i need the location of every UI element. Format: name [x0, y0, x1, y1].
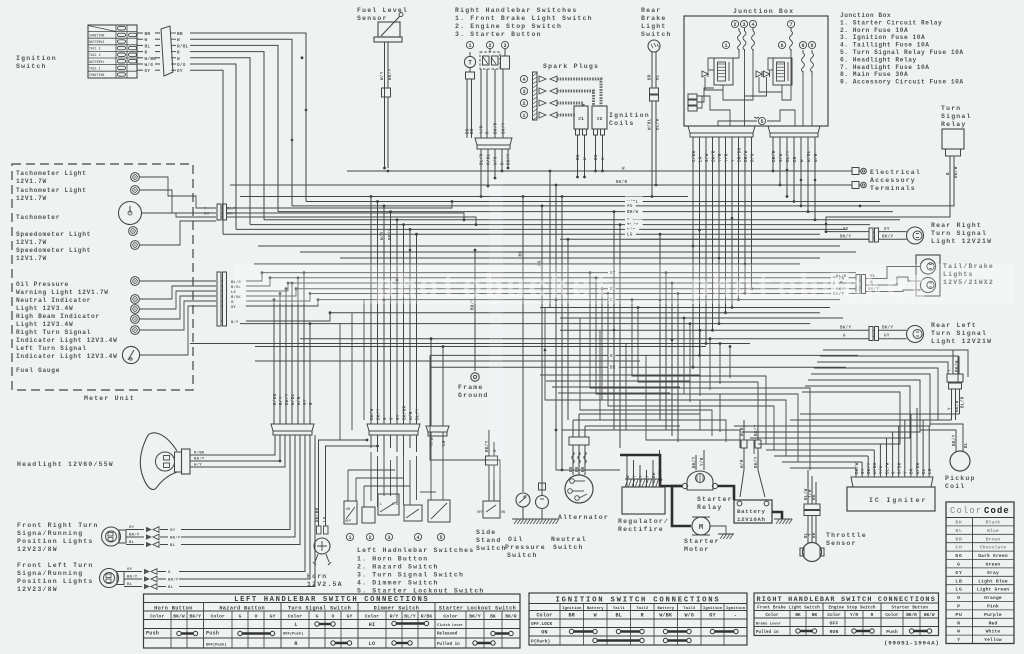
svg-text:1. Starter Circuit Relay: 1. Starter Circuit Relay	[840, 19, 942, 26]
svg-text:12V1.7W: 12V1.7W	[16, 195, 47, 202]
svg-text:Rear Left: Rear Left	[931, 322, 977, 329]
svg-text:Push: Push	[886, 629, 898, 635]
svg-text:Speedometer Light: Speedometer Light	[16, 231, 91, 238]
ignition coil wires	[576, 129, 607, 178]
svg-text:BR/W: BR/W	[627, 210, 638, 215]
svg-text:Switch: Switch	[641, 31, 672, 38]
front brake light switch	[464, 41, 475, 79]
svg-text:M: M	[699, 524, 703, 532]
svg-text:BK: BK	[467, 128, 471, 134]
tail brake bulb lower	[920, 277, 935, 292]
svg-text:LO: LO	[369, 641, 376, 647]
svg-text:RUN: RUN	[830, 629, 839, 635]
meter unit text labels	[16, 170, 118, 374]
meter connector lower	[217, 272, 227, 326]
svg-text:Push: Push	[206, 631, 219, 637]
svg-text:Oil: Oil	[508, 536, 523, 543]
rear left turn signal label	[931, 322, 992, 345]
svg-text:Position Lights: Position Lights	[17, 538, 94, 545]
svg-text:Tachometer Light: Tachometer Light	[16, 187, 87, 194]
spark plugs label	[543, 63, 599, 70]
svg-text:Switch: Switch	[476, 545, 507, 552]
svg-text:6. Headlight Relay: 6. Headlight Relay	[840, 56, 917, 63]
svg-text:Starter Lockout Switch: Starter Lockout Switch	[439, 606, 516, 612]
frame ground symbol	[471, 373, 479, 381]
svg-text:W: W	[627, 475, 631, 478]
svg-text:Front Right Turn: Front Right Turn	[17, 522, 99, 529]
svg-text:Rear Right: Rear Right	[931, 222, 982, 229]
svg-text:BL/W: BL/W	[885, 462, 890, 474]
svg-text:3: 3	[522, 89, 525, 95]
svg-text:BK/Y: BK/Y	[882, 326, 893, 331]
svg-text:Relay: Relay	[941, 121, 967, 128]
svg-text:BL: BL	[168, 586, 174, 590]
svg-text:BR: BR	[145, 32, 151, 37]
rear right turn signal bulb	[907, 227, 924, 244]
svg-text:BK/Y: BK/Y	[840, 235, 851, 240]
svg-text:OFF: OFF	[345, 520, 351, 524]
svg-text:1. Horn Button: 1. Horn Button	[357, 556, 428, 563]
svg-text:7: 7	[789, 22, 792, 28]
svg-text:Light 12V21W: Light 12V21W	[931, 338, 992, 345]
svg-text:#2: #2	[597, 116, 603, 122]
regulator rectifier label	[618, 518, 669, 533]
tail brake connector	[856, 275, 866, 294]
ignition coil cap connector	[947, 350, 966, 420]
starter relay symbol	[682, 471, 717, 490]
svg-text:LB: LB	[955, 578, 962, 584]
svg-text:L: L	[380, 503, 382, 507]
left handlebar connector A	[367, 424, 420, 435]
svg-text:Indicator Light 12V3.4W: Indicator Light 12V3.4W	[16, 337, 118, 344]
svg-text:BL: BL	[616, 613, 622, 619]
tail brake lights label	[943, 263, 994, 286]
svg-text:Horn Button: Horn Button	[154, 606, 193, 612]
svg-text:BL/Y: BL/Y	[415, 408, 420, 420]
svg-text:LG: LG	[929, 468, 933, 474]
svg-text:BK: BK	[911, 468, 915, 474]
svg-text:Brake Lever: Brake Lever	[756, 622, 781, 627]
svg-text:LG: LG	[627, 234, 633, 238]
svg-text:W/BK: W/BK	[659, 613, 672, 619]
svg-text:Turn Signal Switch: Turn Signal Switch	[288, 606, 351, 612]
headlight harness risers	[273, 271, 314, 424]
ignition switch connections table	[529, 593, 747, 645]
svg-text:GY: GY	[231, 306, 236, 310]
rear brake light switch wires	[648, 52, 661, 198]
svg-text:R: R	[177, 51, 180, 56]
svg-text:BK: BK	[653, 472, 657, 478]
rear left turn signal wires	[840, 326, 907, 339]
svg-text:5: 5	[760, 119, 763, 125]
svg-text:Battery: Battery	[587, 606, 604, 611]
throttle sensor wires	[804, 470, 817, 543]
svg-text:Gray: Gray	[987, 570, 999, 576]
svg-text:Y: Y	[957, 637, 961, 643]
svg-text:Brown: Brown	[986, 536, 1001, 542]
junction box title	[733, 8, 794, 15]
svg-text:W: W	[622, 168, 625, 172]
svg-text:Pulled in: Pulled in	[437, 642, 460, 647]
meter connector wire labels	[231, 280, 241, 325]
svg-text:Ignition: Ignition	[562, 606, 582, 611]
svg-text:Horn: Horn	[307, 573, 327, 580]
svg-text:Y/R: Y/R	[850, 613, 858, 618]
svg-text:BK/W: BK/W	[955, 400, 960, 412]
electrical accessory terminal 2	[852, 182, 866, 189]
front right turn signal bulb	[102, 527, 127, 546]
svg-text:3: 3	[387, 535, 390, 541]
svg-text:Light Blue: Light Blue	[978, 578, 1008, 584]
starter circuit relay	[702, 58, 733, 85]
svg-text:Rear: Rear	[641, 7, 661, 14]
battery label	[737, 508, 766, 523]
svg-text:BK/Y: BK/Y	[127, 575, 138, 580]
auxiliary horizontal mesh	[540, 375, 700, 393]
svg-text:R: R	[294, 641, 297, 647]
svg-text:4: 4	[751, 22, 754, 28]
svg-text:Front Brake Light Switch: Front Brake Light Switch	[757, 606, 820, 611]
svg-text:3. Starter Button: 3. Starter Button	[455, 31, 542, 38]
svg-text:Switch: Switch	[16, 63, 47, 70]
ignition switch wire stubs	[137, 32, 160, 74]
svg-text:BL/R: BL/R	[480, 153, 485, 165]
meter unit label	[84, 395, 135, 402]
svg-text:B/Y: B/Y	[231, 320, 239, 325]
svg-text:G/W: G/W	[779, 153, 784, 162]
svg-text:Alternator: Alternator	[558, 514, 609, 521]
svg-text:BL: BL	[657, 74, 661, 80]
svg-text:LG: LG	[699, 156, 703, 162]
svg-text:BK/W: BK/W	[173, 614, 185, 620]
svg-text:BL: BL	[965, 442, 969, 448]
rear harness loop wires	[802, 350, 968, 444]
tail brake wires	[836, 267, 921, 293]
engine stop switch	[480, 41, 500, 69]
svg-text:BR: BR	[177, 32, 183, 37]
color code table	[946, 502, 1014, 644]
svg-text:12V2.5A: 12V2.5A	[307, 581, 343, 588]
svg-text:Tail2: Tail2	[636, 606, 649, 611]
svg-text:GY: GY	[862, 468, 866, 474]
svg-text:Y: Y	[640, 475, 644, 478]
svg-text:IGNITION: IGNITION	[89, 33, 104, 37]
svg-text:Indicator Light 12V3.4W: Indicator Light 12V3.4W	[16, 353, 118, 360]
neutral switch symbol	[536, 483, 549, 519]
battery box	[734, 500, 772, 523]
svg-text:Y: Y	[949, 369, 953, 372]
svg-text:Blue: Blue	[987, 528, 999, 534]
svg-text:2. Horn Fuse 10A: 2. Horn Fuse 10A	[840, 27, 908, 34]
svg-text:Spark Plugs: Spark Plugs	[543, 63, 599, 70]
svg-text:BK/Y: BK/Y	[469, 614, 481, 620]
svg-text:IGNITION: IGNITION	[89, 73, 104, 77]
svg-text:BATTERY2: BATTERY2	[89, 40, 104, 44]
svg-text:BK: BK	[595, 154, 599, 160]
left handlebar switch numbers	[346, 533, 444, 540]
svg-text:Green: Green	[986, 562, 1001, 568]
svg-text:R/Y: R/Y	[390, 614, 399, 620]
svg-text:Neutral: Neutral	[551, 536, 587, 543]
svg-text:Ignition: Ignition	[609, 112, 650, 119]
svg-text:BK/Y: BK/Y	[190, 614, 202, 620]
svg-text:BK/Y: BK/Y	[692, 456, 697, 468]
svg-text:BK/R: BK/R	[711, 150, 716, 162]
svg-text:GY: GY	[884, 335, 890, 339]
svg-text:BK/BR: BK/BR	[315, 507, 320, 522]
meter unit gauges and bulbs	[119, 173, 142, 364]
svg-text:BK/BR: BK/BR	[402, 405, 407, 420]
svg-text:BL/Y: BL/Y	[786, 150, 791, 162]
svg-text:BK: BK	[813, 532, 817, 538]
oil pressure switch label	[505, 536, 546, 559]
svg-text:BK: BK	[204, 213, 209, 217]
headlight bulb	[156, 449, 191, 474]
middle vertical harness	[471, 170, 680, 494]
svg-text:BK/Y: BK/Y	[285, 393, 290, 405]
rear right turn signal label	[931, 222, 992, 245]
svg-text:Color: Color	[827, 613, 841, 618]
svg-text:Relay: Relay	[697, 504, 723, 511]
svg-text:Coil: Coil	[945, 483, 965, 490]
svg-text:Switch: Switch	[553, 544, 584, 551]
svg-text:Left Turn Signal: Left Turn Signal	[16, 345, 87, 352]
svg-text:8: 8	[801, 43, 804, 49]
fuel level sensor label	[357, 7, 408, 22]
svg-text:W: W	[584, 157, 588, 160]
svg-text:Y/R: Y/R	[718, 153, 723, 162]
svg-text:Stand: Stand	[476, 537, 502, 544]
svg-text:1: 1	[468, 43, 471, 49]
junction box numbers	[722, 20, 815, 48]
regulator rectifier wires	[627, 450, 664, 487]
svg-text:Meter Unit: Meter Unit	[84, 395, 135, 402]
svg-text:GY: GY	[397, 414, 401, 420]
left handlebar switches legend	[357, 547, 485, 595]
svg-text:Orange: Orange	[984, 595, 1002, 601]
starter motor cable	[672, 486, 691, 526]
svg-text:Black: Black	[986, 520, 1001, 526]
svg-text:3. Ignition Fuse 10A: 3. Ignition Fuse 10A	[840, 34, 925, 41]
svg-text:BK/Y: BK/Y	[170, 536, 181, 541]
headlight shell	[140, 433, 177, 490]
svg-text:BK/Y: BK/Y	[507, 153, 512, 165]
svg-text:R: R	[957, 620, 961, 626]
svg-text:Motor: Motor	[684, 546, 710, 553]
svg-text:LG: LG	[955, 587, 962, 593]
junction box outline	[684, 16, 828, 126]
svg-text:R: R	[487, 131, 491, 134]
starter relay label	[697, 496, 733, 511]
svg-text:Battery: Battery	[657, 606, 674, 611]
svg-text:Terminals: Terminals	[870, 185, 916, 192]
svg-text:LEFT HANDLEBAR SWITCH CONNECTI: LEFT HANDLEBAR SWITCH CONNECTIONS	[234, 596, 429, 604]
side stand switch symbol	[477, 501, 505, 518]
throttle sensor symbol	[800, 543, 824, 562]
svg-text:OFF: OFF	[477, 511, 483, 515]
svg-text:#1: #1	[578, 116, 584, 122]
svg-text:OFF.LOCK: OFF.LOCK	[531, 622, 552, 627]
svg-text:O: O	[255, 614, 258, 620]
headlight connector	[271, 424, 314, 435]
svg-text:W/Y: W/Y	[380, 71, 385, 80]
svg-text:BK: BK	[955, 520, 962, 526]
svg-text:BK/Y: BK/Y	[388, 68, 393, 80]
junction box left harness	[692, 137, 756, 369]
svg-text:W: W	[594, 613, 597, 619]
svg-text:BK/W: BK/W	[370, 408, 375, 420]
svg-text:Turn: Turn	[941, 105, 961, 112]
svg-text:W: W	[801, 159, 805, 162]
svg-text:GY: GY	[170, 529, 176, 533]
svg-text:BR: BR	[569, 613, 575, 619]
throttle sensor connector	[804, 504, 820, 516]
svg-text:PU: PU	[955, 612, 962, 618]
svg-text:BK: BK	[490, 614, 496, 620]
svg-text:IGNITION SWITCH CONNECTIONS: IGNITION SWITCH CONNECTIONS	[555, 597, 720, 605]
left handlebar switch connections table	[144, 594, 521, 648]
svg-text:OFF(Push): OFF(Push)	[283, 632, 304, 637]
svg-text:BR/BK: BR/BK	[737, 147, 742, 162]
svg-text:Pink: Pink	[987, 604, 999, 610]
svg-text:Fuel Gauge: Fuel Gauge	[16, 367, 60, 374]
svg-text:2. Hazard Switch: 2. Hazard Switch	[357, 564, 439, 571]
junction dots	[291, 109, 828, 352]
svg-text:Color: Color	[765, 613, 779, 618]
meter unit dashed box	[12, 164, 193, 390]
svg-text:R/BK: R/BK	[194, 451, 205, 456]
rear right turn signal wires	[879, 228, 907, 240]
ignition switch label	[16, 55, 57, 70]
svg-text:(99051-1994A): (99051-1994A)	[884, 640, 940, 647]
svg-text:2. Engine Stop Switch: 2. Engine Stop Switch	[455, 23, 562, 30]
svg-text:W/BL: W/BL	[291, 393, 296, 405]
left handlebar upper wires	[370, 195, 421, 424]
svg-text:W/R: W/R	[814, 153, 819, 162]
svg-text:DG: DG	[955, 553, 962, 559]
svg-text:Color: Color	[536, 613, 552, 619]
svg-text:OFF(Push): OFF(Push)	[206, 643, 227, 648]
side stand switch label	[476, 529, 507, 552]
svg-text:Color: Color	[211, 614, 225, 620]
svg-text:W/R: W/R	[297, 396, 302, 405]
svg-text:G: G	[384, 417, 388, 420]
svg-text:G: G	[957, 562, 961, 568]
alternator symbol	[565, 475, 593, 503]
svg-text:BK/Y: BK/Y	[227, 212, 237, 217]
svg-text:BR: BR	[649, 74, 653, 80]
svg-text:4. Dimmer Switch: 4. Dimmer Switch	[357, 580, 439, 587]
svg-text:2: 2	[522, 101, 525, 107]
svg-text:Speedometer Light: Speedometer Light	[16, 247, 91, 254]
ic igniter box	[847, 487, 935, 511]
watermark band	[235, 180, 1015, 480]
svg-text:TAIL 2: TAIL 2	[89, 47, 101, 51]
svg-text:BK: BK	[812, 613, 818, 618]
battery ground cable	[772, 512, 782, 519]
svg-text:Signal: Signal	[941, 113, 972, 120]
svg-text:Dark Green: Dark Green	[978, 553, 1008, 559]
svg-text:GY: GY	[129, 526, 135, 530]
right handlebar connector	[475, 138, 512, 149]
starter relay coil wires	[692, 450, 705, 470]
svg-text:BR: BR	[471, 128, 475, 134]
alternator wires	[569, 414, 700, 475]
svg-text:Brake: Brake	[641, 15, 667, 22]
svg-text:1: 1	[522, 113, 525, 119]
turn signal relay fuse circle	[754, 117, 766, 125]
svg-text:W: W	[957, 629, 961, 635]
junction box lower connector left	[688, 126, 755, 137]
svg-text:W: W	[602, 157, 606, 160]
svg-text:G/BK: G/BK	[898, 462, 903, 474]
svg-text:Color: Color	[443, 614, 457, 620]
svg-text:GY: GY	[843, 228, 849, 232]
svg-text:Y/G: Y/G	[430, 437, 435, 446]
left handlebar connector B	[426, 337, 449, 436]
svg-text:Push: Push	[146, 631, 159, 637]
front left turn signal wires	[124, 435, 315, 590]
svg-text:Position Lights: Position Lights	[17, 578, 94, 585]
svg-text:BK: BK	[610, 367, 616, 371]
svg-text:3: 3	[503, 43, 506, 49]
svg-text:GY: GY	[884, 228, 890, 232]
svg-text:Light: Light	[641, 23, 667, 30]
svg-text:Light 12V3.4W: Light 12V3.4W	[16, 321, 73, 328]
battery ground hatch	[774, 519, 792, 524]
svg-text:BK/W: BK/W	[955, 360, 960, 372]
svg-text:Frame: Frame	[458, 384, 484, 391]
svg-text:W/BL: W/BL	[648, 118, 653, 130]
part number	[884, 640, 940, 647]
svg-text:Tail1: Tail1	[613, 606, 626, 611]
svg-text:W/G: W/G	[145, 63, 154, 68]
svg-text:G: G	[168, 571, 171, 575]
svg-text:Color: Color	[885, 613, 899, 618]
svg-text:Right Handlebar Switches: Right Handlebar Switches	[455, 7, 577, 14]
svg-text:G: G	[843, 335, 846, 339]
svg-text:BL/R: BL/R	[961, 396, 966, 408]
right handlebar switch connections table	[754, 593, 939, 636]
svg-text:Sensor: Sensor	[826, 540, 857, 547]
svg-text:W/R: W/R	[494, 156, 499, 165]
svg-text:W: W	[177, 38, 180, 43]
svg-text:O: O	[332, 614, 335, 620]
starter relay feed cable	[620, 455, 682, 486]
svg-text:High Beam Indicator: High Beam Indicator	[16, 313, 100, 320]
svg-text:GY: GY	[270, 614, 276, 620]
svg-text:BK/W: BK/W	[924, 613, 935, 618]
svg-text:Pickup: Pickup	[945, 475, 976, 482]
svg-text:Signa/Running: Signa/Running	[17, 530, 83, 537]
svg-text:G: G	[239, 614, 242, 620]
svg-text:BL: BL	[955, 528, 962, 534]
svg-text:Color: Color	[365, 614, 379, 620]
svg-text:BK/Y: BK/Y	[376, 408, 381, 420]
svg-text:5. Turn Signal Relay Fuse 10A: 5. Turn Signal Relay Fuse 10A	[840, 49, 964, 56]
svg-text:Engine Stop Switch: Engine Stop Switch	[828, 606, 875, 611]
svg-text:R: R	[502, 162, 506, 165]
svg-text:Battery: Battery	[737, 508, 766, 515]
svg-text:O/G: O/G	[750, 153, 755, 162]
svg-text:Side: Side	[476, 529, 496, 536]
ignition coils	[574, 106, 650, 129]
svg-text:Ignition: Ignition	[726, 606, 746, 611]
svg-text:CH: CH	[955, 545, 962, 551]
turn signal relay label	[941, 105, 972, 128]
svg-text:BK/R: BK/R	[505, 614, 517, 620]
svg-text:4: 4	[416, 535, 419, 541]
